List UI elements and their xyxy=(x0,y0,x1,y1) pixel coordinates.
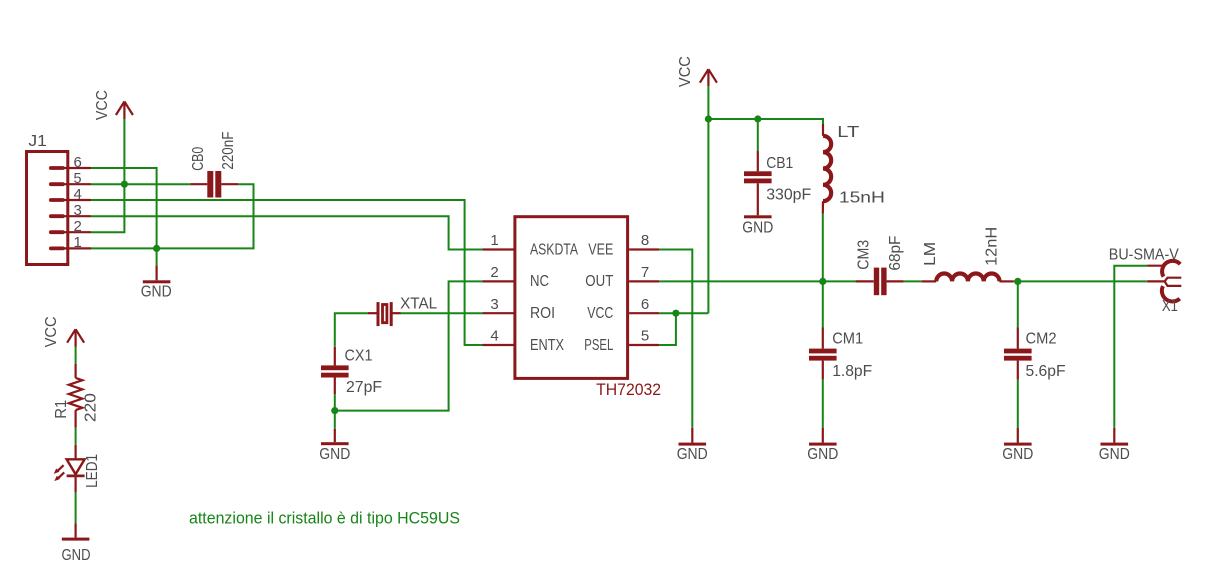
wire NC to CX1 bottom xyxy=(335,281,483,410)
wire J1 pin3 to ASKDTA xyxy=(91,216,483,249)
junction node VCC rail left xyxy=(705,115,712,122)
resistor R1 xyxy=(69,364,83,428)
svg-text:2: 2 xyxy=(74,218,82,235)
J1 pin 2 pad xyxy=(49,230,65,234)
junction node J1 pin1 GND xyxy=(153,245,160,252)
wire CB1 top drop xyxy=(757,119,759,151)
ground GND (CM1) xyxy=(807,428,838,463)
U1 pin 8 stub xyxy=(629,248,659,250)
power VCC symbol (J1) xyxy=(94,90,133,120)
svg-text:OUT: OUT xyxy=(585,273,613,290)
ground GND (VEE) xyxy=(677,428,708,463)
svg-text:attenzione il cristallo è di t: attenzione il cristallo è di tipo HC59US xyxy=(189,510,460,528)
svg-text:ENTX: ENTX xyxy=(530,337,564,354)
svg-text:LT: LT xyxy=(837,124,859,141)
svg-text:ROI: ROI xyxy=(530,305,555,322)
svg-text:3: 3 xyxy=(74,202,82,219)
svg-text:LM: LM xyxy=(922,242,939,266)
wire R1 to LED1 xyxy=(75,428,77,445)
J1 pin 4 lead xyxy=(57,199,91,201)
svg-text:GND: GND xyxy=(807,446,838,463)
wire CX1 bottom to GND xyxy=(334,394,336,429)
LED LED1 xyxy=(54,445,85,493)
wire pin6 VCC row xyxy=(659,312,708,314)
power VCC symbol (top) xyxy=(677,56,717,87)
svg-text:3: 3 xyxy=(490,296,498,313)
svg-text:330pF: 330pF xyxy=(766,187,811,204)
wire PSEL link xyxy=(659,313,676,345)
inductor LM xyxy=(922,273,1014,281)
svg-text:220: 220 xyxy=(83,393,100,422)
svg-text:VCC: VCC xyxy=(94,90,111,120)
svg-text:5.6pF: 5.6pF xyxy=(1026,363,1066,380)
svg-text:8: 8 xyxy=(641,232,649,249)
junction node CX1 bottom xyxy=(331,407,338,414)
wire XTAL left to CX1 xyxy=(335,313,368,347)
svg-text:CX1: CX1 xyxy=(345,348,373,365)
wire J1 pin5 VCC net xyxy=(91,183,190,185)
U1 pin 3 stub xyxy=(483,312,514,314)
capacitor CB1 plates xyxy=(744,151,772,215)
wire VCC2 stem down to pin6 VCC xyxy=(707,86,709,313)
svg-text:ASKDTA: ASKDTA xyxy=(530,241,578,258)
op-amp U1 TH72032 body xyxy=(515,217,628,379)
ground GND (LED) xyxy=(62,523,91,564)
svg-text:CM3: CM3 xyxy=(856,240,873,270)
U1 pin 1 stub xyxy=(483,248,514,250)
svg-text:GND: GND xyxy=(742,220,773,237)
svg-text:6: 6 xyxy=(74,154,82,171)
junction node J1 pin5 VCC xyxy=(121,181,128,188)
svg-text:PSEL: PSEL xyxy=(584,337,613,354)
svg-text:27pF: 27pF xyxy=(346,379,382,396)
connector J1 body xyxy=(27,152,68,265)
svg-text:VCC: VCC xyxy=(677,56,694,87)
svg-text:GND: GND xyxy=(677,446,708,463)
U1 pin 2 stub xyxy=(483,280,514,282)
svg-text:15nH: 15nH xyxy=(839,190,885,207)
U1 pin 7 stub xyxy=(629,280,659,282)
wire GND drop J1 xyxy=(156,248,158,265)
J1 pin 1 lead xyxy=(57,247,91,249)
ground GND (CB1) xyxy=(742,215,773,236)
wire LM to SMA xyxy=(1014,280,1147,282)
J1 pin 5 pad xyxy=(49,182,65,186)
J1 pin 5 lead xyxy=(57,183,91,185)
ground GND (J1) xyxy=(141,266,172,301)
wire VEE to GND xyxy=(659,250,692,428)
svg-text:4: 4 xyxy=(74,186,82,203)
svg-text:12nH: 12nH xyxy=(983,227,1000,266)
svg-text:GND: GND xyxy=(1002,446,1033,463)
J1 pin 6 pad xyxy=(49,166,65,170)
power VCC symbol (LED branch) xyxy=(43,316,84,347)
svg-text:CM2: CM2 xyxy=(1026,331,1057,348)
wire LT top xyxy=(822,118,824,124)
svg-text:1: 1 xyxy=(490,232,498,249)
svg-text:4: 4 xyxy=(490,328,498,345)
wire SMA shield branch xyxy=(1114,266,1147,428)
svg-text:1: 1 xyxy=(74,234,82,251)
J1 pin 4 pad xyxy=(49,198,65,202)
ground GND (CX1) xyxy=(319,429,350,463)
svg-text:GND: GND xyxy=(319,446,350,463)
svg-text:CM1: CM1 xyxy=(832,331,863,348)
connector X1 BU-SMA-V xyxy=(1147,261,1181,302)
ground GND (CM2) xyxy=(1002,428,1033,463)
svg-text:R1: R1 xyxy=(53,400,70,419)
wire OUT row xyxy=(659,280,855,282)
wire CM1 bottom to GND xyxy=(822,380,824,428)
svg-text:LED1: LED1 xyxy=(84,454,101,488)
svg-text:NC: NC xyxy=(530,273,549,290)
svg-text:VCC: VCC xyxy=(587,305,613,322)
svg-text:1.8pF: 1.8pF xyxy=(832,363,872,380)
svg-text:5: 5 xyxy=(641,328,649,345)
J1 pin 2 lead xyxy=(57,231,91,233)
wire VCC rail top xyxy=(708,118,823,120)
wire CM3 to LM xyxy=(904,280,922,282)
crystal XTAL xyxy=(368,302,401,326)
J1 pin 6 lead xyxy=(57,167,91,169)
svg-text:VCC: VCC xyxy=(43,316,60,347)
junction node VCC-PSEL xyxy=(672,310,679,317)
svg-text:VEE: VEE xyxy=(588,241,613,258)
junction node CB1 top xyxy=(754,115,761,122)
U1 pin 6 stub xyxy=(629,312,659,314)
svg-text:XTAL: XTAL xyxy=(400,296,437,313)
capacitor CM2 plates xyxy=(1004,328,1032,380)
svg-text:6: 6 xyxy=(641,296,649,313)
svg-text:GND: GND xyxy=(1099,446,1130,463)
svg-text:68pF: 68pF xyxy=(887,235,904,270)
junction node OUT-LT-CM1 xyxy=(819,278,826,285)
svg-text:CB0: CB0 xyxy=(190,147,207,171)
wire LT bottom to OUT xyxy=(822,214,824,282)
svg-text:X1: X1 xyxy=(1162,298,1178,315)
capacitor CB0 plates xyxy=(190,171,238,198)
capacitor CM1 plates xyxy=(809,328,837,380)
wire CM2 top xyxy=(1017,281,1019,327)
wire XTAL to ROI xyxy=(401,312,483,314)
wire VCC stem to J1 xyxy=(91,119,124,232)
capacitor CX1 plates xyxy=(321,347,349,395)
junction node LM-CM2 xyxy=(1014,278,1021,285)
J1 pin 3 pad xyxy=(49,214,65,218)
capacitor CM3 plates xyxy=(856,268,904,296)
wire J1 pin1 GND net to CB0 xyxy=(91,184,254,248)
J1 pin 3 lead xyxy=(57,215,91,217)
wire CM1 top xyxy=(822,281,824,327)
wire J1 pin6 to GND net xyxy=(91,168,157,248)
svg-text:CB1: CB1 xyxy=(766,155,793,172)
svg-text:220nF: 220nF xyxy=(220,131,237,169)
U1 pin 4 stub xyxy=(483,344,514,346)
ground GND (SMA shield) xyxy=(1099,428,1130,463)
svg-text:7: 7 xyxy=(641,264,649,281)
svg-text:TH72032: TH72032 xyxy=(596,380,661,399)
svg-text:J1: J1 xyxy=(28,133,47,150)
wire LED1 to GND xyxy=(75,492,77,523)
svg-text:2: 2 xyxy=(490,264,498,281)
svg-text:GND: GND xyxy=(141,284,172,301)
svg-text:5: 5 xyxy=(74,170,82,187)
wire J1 pin4 to ENTX xyxy=(91,200,483,345)
U1 pin 5 stub xyxy=(629,344,659,346)
svg-text:GND: GND xyxy=(62,547,91,564)
wire VCC to R1 xyxy=(75,347,77,364)
svg-text:BU-SMA-V: BU-SMA-V xyxy=(1109,247,1179,264)
J1 pin 1 pad xyxy=(49,247,65,251)
inductor LT xyxy=(823,124,831,214)
wire CM2 bottom to GND xyxy=(1017,380,1019,428)
